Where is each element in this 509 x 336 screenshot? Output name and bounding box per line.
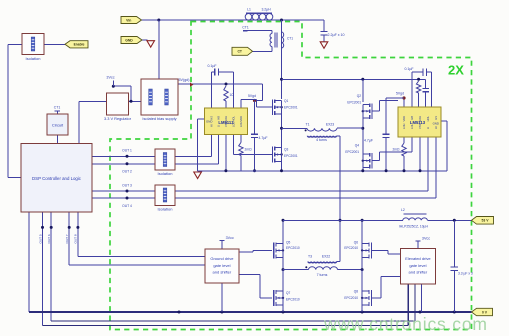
svg-text:HOH: HOH [224,116,228,122]
svg-text:3Vcc: 3Vcc [422,237,430,241]
svg-text:HB: HB [216,116,220,120]
svg-text:Q4: Q4 [355,144,359,148]
svg-text:Elevated drive: Elevated drive [405,256,431,261]
svg-text:L1: L1 [247,7,251,11]
svg-text:Circuit: Circuit [52,123,64,128]
svg-text:HI: HI [434,126,438,129]
svg-text:5Vgd: 5Vgd [248,94,256,98]
svg-text:LI: LI [216,125,220,127]
svg-text:HB: HB [410,116,414,120]
svg-text:VDD: VDD [239,116,243,122]
svg-text:LOL: LOL [410,124,414,129]
svg-text:Q3: Q3 [284,148,288,152]
svg-text:OUT 7: OUT 7 [65,234,69,243]
svg-text:OUT 5: OUT 5 [38,234,42,243]
svg-text:VSS: VSS [224,122,228,127]
svg-text:2mΩ: 2mΩ [392,148,400,152]
svg-text:7 turns: 7 turns [317,273,328,277]
svg-text:Q5: Q5 [286,240,290,244]
svg-text:OUT 3: OUT 3 [122,183,132,187]
svg-text:gate level: gate level [409,263,426,268]
svg-text:EPC2010: EPC2010 [344,296,358,300]
svg-text:GND: GND [433,121,439,125]
svg-text:EPC2001: EPC2001 [284,106,298,110]
svg-text:L2: L2 [401,208,405,212]
svg-text:LI: LI [426,127,430,129]
svg-text:5Vgd: 5Vgd [396,92,404,96]
svg-text:Ground drive: Ground drive [210,256,234,261]
svg-text:4.7µF: 4.7µF [259,136,268,140]
svg-text:www.cntronics.com: www.cntronics.com [323,314,487,334]
svg-text:OUT 8: OUT 8 [74,234,78,243]
svg-text:and shifter: and shifter [213,270,232,275]
svg-text:3Vcc: 3Vcc [106,76,114,80]
svg-text:CT1: CT1 [54,105,61,109]
svg-text:Vin: Vin [126,18,131,22]
svg-text:2X: 2X [448,63,464,78]
svg-text:3Vcc: 3Vcc [226,236,234,240]
svg-text:3.3 µF x 3: 3.3 µF x 3 [458,271,473,275]
svg-text:Q1: Q1 [284,99,288,103]
svg-text:T1: T1 [306,122,310,126]
svg-text:EPC2010: EPC2010 [286,246,300,250]
svg-text:Enable: Enable [74,43,85,47]
svg-text:53 V: 53 V [482,219,490,223]
svg-text:4 turns: 4 turns [316,138,327,142]
svg-text:EX22: EX22 [322,255,330,259]
svg-text:CT1: CT1 [287,37,293,41]
svg-text:5V(gd): 5V(gd) [178,78,189,82]
svg-text:2.2µF x 10: 2.2µF x 10 [328,33,345,37]
svg-text:CT1: CT1 [242,26,249,30]
svg-text:T3: T3 [308,255,312,259]
svg-text:Isolation: Isolation [158,171,173,176]
svg-text:4.7µF: 4.7µF [364,139,373,143]
svg-text:Isolation: Isolation [26,56,41,61]
svg-text:LOH: LOH [239,122,243,127]
svg-text:GND: GND [206,119,212,123]
svg-text:EPC2010: EPC2010 [344,246,358,250]
svg-text:EPC2001: EPC2001 [347,100,361,104]
svg-text:and shifter: and shifter [409,270,428,275]
svg-text:DSP Controller and Logic: DSP Controller and Logic [32,176,82,181]
svg-text:Isolation: Isolation [158,206,173,211]
svg-text:OUT 1: OUT 1 [122,149,132,153]
svg-text:OUT 2: OUT 2 [122,169,132,173]
svg-text:IHLP2525CZ, 10µH: IHLP2525CZ, 10µH [399,224,428,228]
svg-text:OUT 4: OUT 4 [122,204,132,208]
svg-text:LOL: LOL [231,122,235,127]
svg-text:EPC2001: EPC2001 [345,150,359,154]
svg-text:0.1µF: 0.1µF [404,67,413,71]
svg-text:VSS: VSS [418,124,422,129]
svg-text:Q2: Q2 [357,94,361,98]
svg-text:HOL: HOL [426,115,430,121]
svg-text:HI: HI [210,124,214,127]
svg-text:EX23: EX23 [326,122,334,126]
svg-text:0.1µF: 0.1µF [207,64,216,68]
svg-text:gate level: gate level [213,263,230,268]
svg-text:LOH: LOH [402,124,406,129]
svg-text:Q8: Q8 [354,290,358,294]
svg-text:3.3 V Regulator: 3.3 V Regulator [104,116,132,121]
svg-text:Q7: Q7 [286,291,290,295]
svg-text:HOL: HOL [231,115,235,121]
svg-text:EPC2010: EPC2010 [286,297,300,301]
svg-text:EPC2001: EPC2001 [284,154,298,158]
svg-text:HOH: HOH [418,116,422,122]
svg-text:GND: GND [125,38,133,42]
svg-text:2mΩ: 2mΩ [245,148,253,152]
svg-text:HS: HS [434,116,438,120]
svg-text:OUT 6: OUT 6 [47,234,51,243]
svg-text:VDD: VDD [402,116,406,122]
svg-text:Q6: Q6 [354,240,358,244]
svg-text:Isolated bias supply: Isolated bias supply [142,116,176,121]
svg-text:3.2µH: 3.2µH [261,7,271,11]
